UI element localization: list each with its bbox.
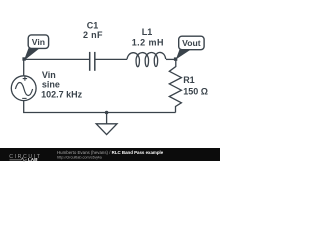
svg-text:http://circuitlab.com/c6vj4a: http://circuitlab.com/c6vj4a [57, 155, 103, 159]
svg-text:LAB: LAB [28, 157, 38, 162]
svg-text:Humberto Evans (hevans) / RLC: Humberto Evans (hevans) / RLC Band Pass … [57, 150, 164, 155]
